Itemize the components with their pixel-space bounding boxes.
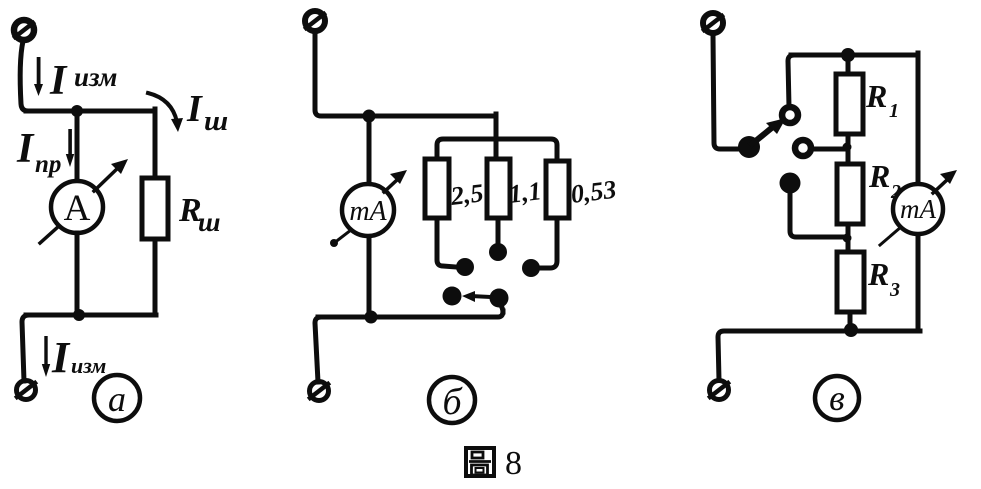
wire meter bottom to bus (367, 236, 372, 317)
svg-text:R: R (868, 158, 890, 194)
wire switch dot down to bus corner (500, 303, 503, 312)
resistor R1 (836, 74, 863, 134)
switch blade arrow (v) (752, 118, 786, 144)
switch arm arrow (b) (462, 291, 491, 302)
svg-text:3: 3 (889, 279, 900, 301)
node tick R2-R3 junction (843, 234, 852, 243)
wire R3 bottom lead (848, 312, 853, 331)
wire drop from top bus to R2 top (494, 114, 499, 159)
label I изм (bottom) (51, 333, 106, 382)
wire ring to R1-R2 junction (811, 147, 843, 152)
node contact dot R1 (456, 258, 474, 276)
wire bottom bus (v) (718, 331, 920, 380)
op ammeter A (a) (51, 181, 103, 233)
svg-text:mA: mA (349, 196, 387, 227)
wire ammeter bottom to bus (75, 233, 80, 315)
caption glyph 圖 (466, 448, 494, 476)
arrow down Iizm top (34, 57, 43, 96)
svg-text:mA: mA (900, 194, 936, 224)
wire bus left end down to terminal (22, 315, 29, 381)
ammeter needle arrow (a) (40, 159, 128, 243)
node junction top (a) (71, 105, 83, 117)
label R1 (865, 78, 899, 122)
meter needle arrow (v) (880, 170, 957, 245)
wire terminal down and top bus (b) (315, 33, 496, 116)
svg-text:R: R (867, 256, 889, 292)
svg-text:1,1: 1,1 (507, 176, 543, 209)
svg-text:A: A (64, 188, 91, 229)
label circle (a) (94, 375, 140, 421)
wire contact dot down to R2-R3 junction (790, 193, 845, 237)
wire top bus (v) (791, 53, 918, 58)
svg-text:I: I (186, 88, 203, 130)
resistor R2 (837, 164, 863, 224)
svg-text:1: 1 (889, 100, 899, 122)
resistor Rsh (142, 178, 168, 239)
svg-text:I: I (16, 126, 35, 172)
node switch pivot dot (v) (738, 136, 760, 158)
terminal bottom (b) (310, 382, 329, 401)
svg-text:б: б (442, 381, 463, 423)
node junction top (b) (363, 110, 376, 123)
arrow down Iizm bottom (42, 336, 50, 377)
terminal bottom-left (a) (17, 381, 36, 400)
op meter mA (b) (342, 184, 394, 236)
svg-text:изм: изм (74, 62, 117, 92)
svg-text:2,5: 2,5 (448, 178, 485, 211)
node junction bottom (b) (365, 311, 378, 324)
node junction bottom (v) (844, 323, 858, 337)
wire junction down to meter top (367, 116, 372, 184)
wire R2-R3 lead (846, 224, 851, 252)
svg-text:8: 8 (505, 445, 522, 482)
op meter mA (v) (893, 184, 943, 234)
meter needle arrow (b) (330, 170, 407, 247)
svg-text:ш: ш (198, 207, 221, 237)
resistor 0,53 (546, 161, 569, 218)
wire Rsh bottom down (153, 239, 158, 315)
wire top bus (a) (26, 109, 155, 114)
label I изм (top) (49, 58, 117, 104)
svg-text:I: I (51, 333, 71, 382)
wire bus left end down to terminal (b) (315, 317, 321, 382)
wire right drop to Rsh top (153, 109, 158, 178)
resistor 2,5 (425, 159, 449, 218)
svg-text:0,53: 0,53 (569, 175, 618, 209)
wire R1 top lead (846, 55, 851, 74)
svg-text:пр: пр (35, 151, 61, 178)
wire R1-R2 lead (846, 134, 851, 164)
wire right bus down to meter (916, 53, 921, 185)
wire from top terminal down to top bus (a) (20, 41, 28, 111)
label R ш (178, 192, 221, 237)
wire junction down to ammeter (75, 111, 80, 182)
node junction bottom (a) (73, 309, 85, 321)
svg-text:в: в (829, 378, 845, 418)
terminal top (b) (305, 11, 325, 31)
svg-text:I: I (49, 58, 68, 104)
label circle (v) (815, 376, 859, 420)
node junction top bus (v) (841, 48, 855, 62)
resistor R3 (837, 252, 864, 312)
svg-text:изм: изм (71, 353, 106, 378)
svg-text:а: а (108, 379, 126, 419)
switch arm dots (b) (443, 287, 462, 306)
label I пр (16, 126, 61, 178)
label R2 (868, 158, 901, 203)
label I ш (186, 88, 228, 137)
svg-text:R: R (865, 78, 887, 114)
node contact dot R2 (489, 243, 507, 261)
arrow down I пр (66, 129, 74, 167)
node contact dot R3 (522, 259, 540, 277)
terminal top (v) (703, 13, 723, 33)
wire terminal down to switch pivot (713, 35, 741, 149)
terminal top-left (a) (14, 20, 34, 40)
wire ring up to top bus corner (788, 55, 794, 107)
label circle (b) (429, 377, 475, 423)
svg-text:ш: ш (204, 105, 228, 137)
wire bottom bus (a) (26, 313, 156, 318)
wire bottom bus (b) (318, 311, 503, 317)
node tick R1-R2 junction (843, 143, 852, 152)
wire R3 bottom lead to contact (540, 218, 557, 268)
wire meter bottom to bus (v) (916, 234, 921, 331)
curved arrow I sh (148, 93, 183, 132)
node contact dot left (v) (780, 173, 801, 194)
wire R1 bottom lead to contact (437, 218, 456, 267)
switch open contact ring top (v) (782, 107, 798, 123)
wire shunt header bus (437, 139, 557, 161)
label R3 (867, 256, 900, 301)
switch open contact ring middle (v) (795, 140, 811, 156)
terminal bottom (v) (710, 381, 729, 400)
resistor 1,1 (487, 159, 510, 218)
wire R2 bottom lead (496, 218, 501, 246)
